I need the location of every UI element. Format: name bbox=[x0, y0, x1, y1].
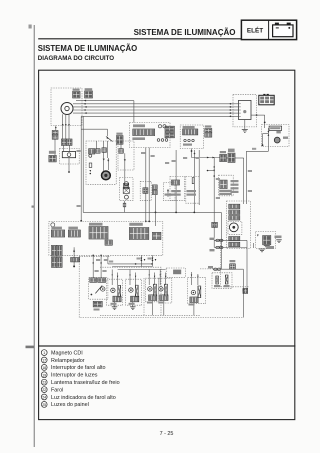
svg-text:17: 17 bbox=[42, 359, 46, 363]
meter illumination lamp bulb bbox=[191, 290, 195, 294]
headlight high beam lamp bulb bbox=[111, 288, 115, 292]
connector block near magneto bbox=[73, 91, 80, 98]
lamp socket labels bbox=[111, 303, 117, 305]
comb pair right of dimmer bbox=[152, 185, 157, 190]
lights switch dashed box bbox=[163, 183, 175, 201]
regulator body bbox=[239, 100, 252, 119]
svg-text:ELÉT: ELÉT bbox=[247, 26, 263, 35]
right resistor chain dashed box bbox=[186, 176, 199, 203]
legend item 17 bbox=[41, 357, 47, 363]
magneto CDI coil symbol bbox=[61, 103, 73, 115]
connector on tail drop bbox=[243, 288, 248, 293]
wire relay to collector bbox=[124, 201, 126, 213]
switch contact symbol bbox=[106, 137, 113, 142]
position lamp left bulb bbox=[148, 287, 152, 291]
connector pair below magneto bbox=[61, 139, 66, 145]
wire to tail harness bbox=[226, 157, 228, 159]
cluster connector 1 bbox=[51, 227, 62, 230]
meter illumination lamp return wire bbox=[193, 303, 195, 316]
connector pair right of harness box bbox=[205, 129, 212, 133]
svg-text:Interruptor de farol alto: Interruptor de farol alto bbox=[51, 365, 106, 371]
main harness multi connector bbox=[259, 95, 274, 105]
connector block bottom of second chain bbox=[123, 184, 128, 189]
headlight low beam lamp dashed box bbox=[126, 279, 142, 305]
wire feed line 1 bbox=[108, 263, 153, 265]
harness connector dashed box top-middle bbox=[180, 125, 203, 149]
connector pair stack left of harness box bbox=[165, 126, 174, 131]
svg-text:18: 18 bbox=[42, 366, 46, 370]
tail harness connector block bbox=[228, 153, 235, 162]
headlight low beam lamp ground bbox=[132, 302, 134, 307]
wire condenser branch bbox=[263, 133, 269, 135]
connector block on vertical bbox=[212, 222, 218, 227]
connector pair on wire bbox=[220, 154, 227, 161]
license lamp block bbox=[263, 236, 271, 245]
legend item 18 bbox=[41, 365, 47, 371]
svg-text:Magneto CDI: Magneto CDI bbox=[51, 350, 83, 356]
position lamp left leads bbox=[148, 270, 150, 286]
license lamp dashed box bbox=[256, 232, 276, 249]
handlebar switch cluster dashed box bbox=[49, 221, 163, 255]
headlight high beam lamp ground bbox=[114, 302, 116, 307]
legend item 22 bbox=[41, 387, 47, 393]
svg-text:DIAGRAMA DO CIRCUITO: DIAGRAMA DO CIRCUITO bbox=[38, 55, 114, 62]
pilot switch blade bbox=[95, 286, 102, 294]
pilot connector below bbox=[93, 301, 102, 307]
regulator pin stub bbox=[233, 109, 239, 111]
tail connector comb row 2 bbox=[229, 210, 240, 214]
meter pilot circles bbox=[158, 125, 161, 128]
relay X body bbox=[123, 187, 129, 193]
meter illumination lamp socket comb bbox=[190, 297, 198, 303]
svg-text:25: 25 bbox=[42, 403, 46, 407]
regulator pin stub bbox=[233, 103, 239, 105]
magneto CDI dashed enclosure bbox=[51, 88, 82, 126]
wire meter risers bbox=[145, 148, 147, 222]
lighting coil chains dashed box bbox=[86, 141, 116, 184]
connector block on feed bbox=[230, 264, 236, 269]
position lamp right dashed box bbox=[159, 278, 172, 303]
wire node below harness connector bbox=[191, 149, 193, 158]
tail connector comb row 4 bbox=[229, 236, 240, 240]
ground below regulator bbox=[242, 129, 248, 131]
small lamp chain bbox=[89, 154, 92, 157]
svg-text:Relampejador: Relampejador bbox=[51, 358, 85, 364]
left resistor chain dashed box bbox=[170, 176, 185, 200]
page left scan edge line bbox=[33, 25, 35, 447]
wire drop flasher pair 1 bbox=[140, 255, 142, 266]
svg-text:Lanterna traseira/luz de freio: Lanterna traseira/luz de freio bbox=[51, 380, 120, 386]
wire headlight feed horizontal bbox=[213, 268, 243, 270]
header rule bbox=[38, 38, 241, 40]
condenser dashed box bbox=[262, 125, 290, 147]
svg-text:Interruptor de luzes: Interruptor de luzes bbox=[51, 373, 98, 379]
wire long vertical to meter lamp bbox=[213, 158, 215, 248]
wire left branch from magneto box bbox=[55, 126, 57, 131]
diagram frame bbox=[39, 70, 295, 346]
svg-text:22: 22 bbox=[42, 388, 46, 392]
wire tail ground bbox=[253, 243, 255, 248]
headlight high beam lamp socket comb bbox=[113, 296, 121, 302]
wire down to CDI unit connector bbox=[54, 139, 56, 155]
cluster connector small bbox=[105, 240, 112, 245]
regulator pin stub bbox=[233, 112, 239, 114]
connector stack below cluster 2 bbox=[52, 257, 57, 267]
headlight low beam lamp socket comb bbox=[131, 296, 139, 302]
condenser round body bbox=[274, 137, 280, 143]
svg-text:7 - 25: 7 - 25 bbox=[160, 431, 174, 437]
header tab box ELET bbox=[241, 20, 296, 39]
tail lamp labels bbox=[231, 180, 239, 182]
headlight high beam lamp leads bbox=[111, 270, 113, 286]
tail connector comb row 1 bbox=[229, 204, 240, 208]
cluster connector right bbox=[152, 232, 161, 239]
wire down right side bbox=[242, 269, 244, 317]
wire bus line 4 bbox=[73, 109, 233, 111]
meter assembly dashed box bbox=[130, 123, 171, 148]
dimmer switch dashed box bbox=[140, 181, 151, 200]
aux lamp dashed box between bbox=[166, 268, 185, 277]
position lamp right bulb bbox=[159, 287, 163, 291]
cluster connector 3 wide bbox=[89, 223, 103, 226]
wire down to headlight feed bbox=[220, 212, 222, 269]
wire chain lead bbox=[96, 141, 98, 149]
wire bus line 3 bbox=[73, 106, 233, 108]
wire bus line 6 bbox=[81, 115, 232, 117]
CDI unit connector block bbox=[49, 155, 56, 162]
wire bus line 5 bbox=[73, 112, 233, 114]
wire magneto lead 3 bbox=[68, 114, 70, 139]
wire relay to ground node bbox=[68, 158, 70, 172]
position lamp left socket comb bbox=[149, 295, 157, 301]
wire collector riser bbox=[82, 116, 84, 212]
position lamp right socket comb bbox=[160, 295, 168, 301]
wire tail feed 2 bbox=[214, 247, 247, 249]
svg-text:Luzes do painel: Luzes do painel bbox=[51, 402, 89, 408]
headlight high beam lamp filament resistor bbox=[118, 285, 121, 297]
tail brake bulb dashed box bbox=[228, 222, 242, 235]
wire magneto lead 2 bbox=[65, 114, 67, 139]
condenser label plate bbox=[269, 126, 282, 130]
wire bus line 1 to meter bbox=[76, 100, 134, 102]
headlight high beam lamp dashed box bbox=[107, 279, 123, 305]
wire magneto lead 1 bbox=[62, 114, 64, 139]
wire feed line 2 bbox=[112, 266, 152, 268]
wire tail feed 1 bbox=[214, 239, 247, 241]
main switch dashed box bbox=[219, 175, 234, 196]
pilot lamp dashed box bbox=[89, 278, 108, 300]
diode chain 2 bbox=[106, 141, 108, 158]
wire to flasher relay bbox=[63, 145, 65, 151]
tail connector comb row 5 bbox=[229, 242, 240, 246]
regulator pin stub bbox=[233, 115, 239, 117]
meter illumination lamp filament resistor bbox=[198, 286, 201, 298]
wire comb pair drop bbox=[155, 195, 157, 226]
flasher relay body bbox=[62, 152, 75, 158]
light switch lead bbox=[73, 247, 75, 266]
tail area dashed extensions bbox=[221, 240, 249, 287]
harness connector comb bbox=[183, 129, 198, 135]
frame ground symbol far right bbox=[275, 236, 282, 239]
diode chain 1 bbox=[102, 148, 107, 153]
ground tail right bbox=[259, 248, 266, 250]
dashed feed right bbox=[200, 268, 221, 270]
legend item 24 bbox=[41, 394, 47, 400]
battery icon bbox=[273, 25, 293, 37]
wire condenser to tail lamp bbox=[267, 146, 269, 151]
cluster connector 2 bbox=[68, 227, 78, 230]
comb in second chain box bbox=[119, 149, 123, 154]
regulator pin stub bbox=[233, 106, 239, 108]
svg-text:24: 24 bbox=[42, 396, 46, 400]
wire branch to dimmer area bbox=[81, 128, 107, 130]
wire drops from cluster bbox=[92, 255, 94, 277]
tail brake bulb bbox=[229, 223, 238, 232]
wire risers center bbox=[175, 150, 177, 213]
position lamp right return wire bbox=[163, 301, 165, 316]
legend item 25 bbox=[41, 402, 47, 408]
position lamp right leads bbox=[159, 270, 161, 286]
ground under license lamp bbox=[264, 244, 270, 246]
svg-text:SISTEMA DE ILUMINAÇÃO: SISTEMA DE ILUMINAÇÃO bbox=[134, 28, 236, 37]
svg-text:23: 23 bbox=[42, 381, 46, 385]
legend item 1 bbox=[41, 350, 47, 356]
wire drop flasher pair 2 bbox=[152, 255, 154, 266]
connector stack below cluster 1 bbox=[52, 245, 57, 256]
svg-text:Luz indicadora de farol alto: Luz indicadora de farol alto bbox=[51, 395, 116, 401]
legend item 23 bbox=[41, 379, 47, 385]
connector block on magneto output bbox=[85, 91, 93, 98]
connector comb in chain box bbox=[89, 149, 95, 154]
svg-text:SISTEMA DE ILUMINAÇÃO: SISTEMA DE ILUMINAÇÃO bbox=[38, 44, 137, 53]
wire bus line 2 bbox=[73, 103, 233, 105]
svg-text:1: 1 bbox=[43, 351, 45, 355]
headlight low beam lamp filament resistor bbox=[135, 285, 138, 297]
wire regulator to ground bbox=[244, 120, 246, 130]
cluster flasher connector bbox=[129, 223, 143, 226]
meter lamps dashed box right bbox=[212, 273, 232, 289]
svg-text:Farol: Farol bbox=[51, 387, 63, 393]
connector pair left column bbox=[52, 131, 58, 135]
second chain dashed box bbox=[118, 141, 134, 170]
legend item 19 bbox=[41, 372, 47, 378]
svg-text:19: 19 bbox=[42, 373, 46, 377]
flasher relay dashed box bbox=[59, 149, 79, 165]
pilot bulb bbox=[101, 287, 105, 291]
wire regulator output bbox=[251, 114, 265, 116]
connector block right of switch bbox=[116, 136, 123, 145]
headlight area dashed outline bbox=[79, 256, 243, 317]
regulator dashed box bbox=[233, 95, 257, 127]
wire main feed vertical bbox=[80, 116, 82, 221]
wire color code labels bbox=[137, 258, 141, 260]
relay unit dashed box bbox=[120, 178, 133, 201]
wire feed line 3 bbox=[118, 269, 166, 271]
wire horizontal to right blocks bbox=[192, 157, 220, 159]
legend box bbox=[39, 346, 295, 420]
headlight low beam lamp bulb bbox=[129, 288, 133, 292]
wire tail right drop bbox=[246, 240, 248, 293]
tail lamp assembly dashed box bbox=[227, 201, 251, 249]
pilot lamp large bbox=[102, 171, 111, 180]
position lamp left dashed box bbox=[145, 278, 159, 302]
position lamp left return wire bbox=[152, 301, 154, 316]
headlight low beam lamp leads bbox=[129, 270, 131, 286]
meter illumination lamp dashed box bbox=[188, 277, 206, 303]
wire collector horizontal bbox=[83, 211, 221, 213]
position lamp left filament resistor bbox=[154, 284, 157, 296]
position lamp right filament resistor bbox=[165, 284, 168, 296]
meter illumination lamp leads bbox=[191, 272, 193, 285]
tail connector comb row 3 bbox=[229, 216, 240, 220]
meter connector comb bbox=[133, 129, 155, 136]
wire stub junction bbox=[208, 170, 215, 172]
wire inside condenser box bbox=[267, 128, 269, 146]
